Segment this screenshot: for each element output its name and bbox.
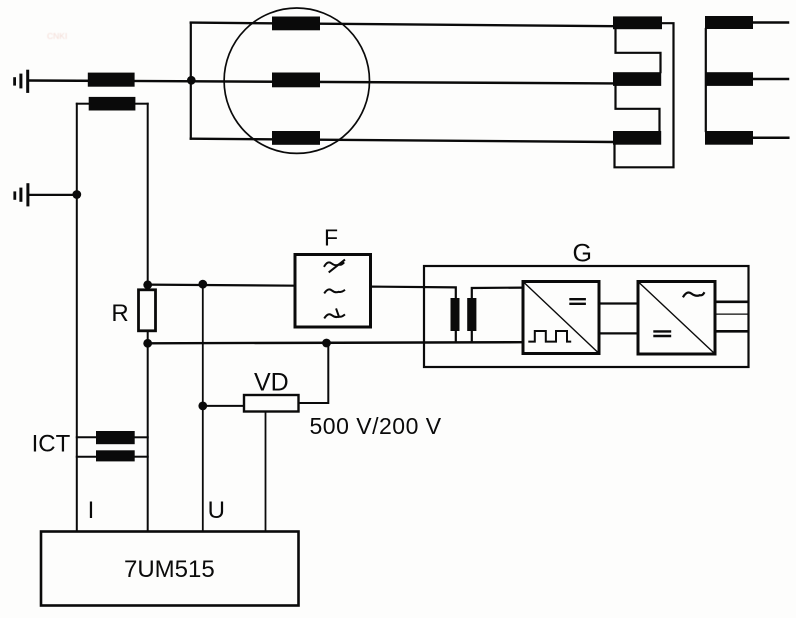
node J4 (R bottom) — [143, 339, 152, 348]
relay 7UM515 box — [41, 532, 299, 606]
generator circle — [224, 8, 369, 153]
wire ICT lower right stub — [135, 456, 148, 458]
interposing CT lower winding — [96, 450, 135, 461]
wire R bottom stub — [147, 331, 149, 344]
op block F box — [295, 255, 371, 328]
resistor R — [139, 290, 156, 331]
wire star point vertical — [705, 29, 707, 131]
F symbol tilde-down — [325, 314, 344, 317]
wire secondary bottom stub — [471, 331, 473, 342]
wire VD right to bus — [299, 343, 329, 403]
excitation block G box — [424, 266, 749, 367]
wire U2 output top — [715, 300, 748, 303]
wire VD bottom to relay — [265, 412, 267, 532]
wire CT secondary right stub — [135, 103, 147, 105]
svg-text:U: U — [208, 497, 225, 524]
transformer delta winding bar 2 — [613, 72, 661, 86]
svg-text:F: F — [324, 224, 338, 250]
wire U vertical (tap to relay U input) — [202, 284, 204, 531]
wire star output stub 1 — [753, 21, 788, 24]
wire R top to F box — [148, 285, 295, 286]
converter U2 dc symbol — [655, 331, 671, 336]
wire primary bottom stub — [455, 331, 457, 342]
node J6 (VD tap on U line) — [198, 402, 207, 411]
wire star output stub 3 — [753, 137, 788, 140]
transformer delta winding bar 1 — [613, 16, 662, 29]
wire delta step 2 — [616, 86, 660, 131]
generator winding bar 2 — [272, 73, 320, 88]
wire ICT upper left stub — [77, 436, 96, 438]
wire right vertical upper (CT sec. to R top) — [147, 104, 149, 290]
transformer primary bar — [451, 298, 460, 331]
node J3 (R top) — [143, 280, 152, 289]
divider VD box — [244, 395, 299, 412]
converter U2 diagonal — [640, 283, 714, 353]
wire phase A (top line) — [191, 23, 613, 27]
transformer star winding bar 1 — [705, 16, 753, 29]
wire bus R bottom to converter (lower bus) — [148, 342, 523, 343]
wire U1 to U2 upper — [599, 302, 638, 304]
converter U1 diagonal — [525, 283, 598, 352]
interposing CT upper winding — [96, 431, 135, 444]
ground E2 — [13, 183, 29, 206]
generator winding bar 1 — [272, 17, 320, 31]
generator winding bar 3 — [272, 131, 320, 145]
wire ICT lower left stub — [77, 456, 96, 458]
wire F output to transformer — [371, 287, 456, 299]
node J1 (phase B tap) — [187, 76, 196, 85]
ground E1 — [13, 70, 29, 93]
svg-text:7UM515: 7UM515 — [124, 556, 215, 583]
node J7 (VD tap on bus) — [322, 339, 331, 348]
svg-text:R: R — [111, 300, 128, 327]
wire U1 to U2 lower — [599, 332, 638, 334]
node J2 (ground tie) — [72, 190, 81, 199]
F symbol tilde — [325, 289, 344, 292]
F symbol tilde-up — [325, 262, 344, 266]
wire delta step 1 — [616, 29, 661, 72]
wire delta closing loop — [615, 23, 674, 167]
node J5 (U tap) — [198, 280, 207, 289]
svg-text:I: I — [88, 497, 95, 524]
CT primary winding (on phase B) — [88, 73, 135, 87]
wire star output stub 2 — [753, 78, 788, 81]
wire phase B (mid line from ground E1 through CT to transformer) — [29, 81, 613, 84]
svg-text:G: G — [573, 239, 592, 267]
transformer delta winding bar 3 — [613, 131, 661, 145]
svg-text:VD: VD — [254, 369, 289, 397]
wire left vertical (CT sec. to relay I input) — [76, 104, 78, 532]
wire right vertical lower (R bottom to relay I input) — [147, 343, 149, 531]
wire U2 output bottom — [715, 330, 748, 333]
wire VD left stub — [203, 405, 244, 407]
wire ground E2 lead — [29, 194, 76, 196]
wire U2 output mid — [715, 313, 748, 315]
converter U2 box — [638, 282, 715, 355]
transformer star winding bar 2 — [705, 72, 753, 86]
transformer secondary bar — [467, 298, 476, 331]
converter U1 dc symbol — [571, 299, 585, 304]
converter U2 ac symbol — [684, 292, 704, 296]
wire phase C (bottom line) — [191, 139, 613, 142]
converter U1 pulse symbol — [529, 331, 570, 342]
converter U1 box — [523, 282, 599, 354]
watermark — [47, 31, 67, 41]
CT secondary winding — [89, 97, 136, 111]
svg-text:500 V/200 V: 500 V/200 V — [310, 413, 442, 439]
wire secondary top to converter U1 — [472, 288, 523, 299]
svg-text:ICT: ICT — [32, 431, 71, 458]
transformer star winding bar 3 — [705, 131, 753, 145]
wire CT secondary left stub — [77, 103, 89, 105]
wire phase tie vertical (left of generator) — [190, 23, 192, 139]
wire ICT upper right stub — [135, 436, 148, 438]
